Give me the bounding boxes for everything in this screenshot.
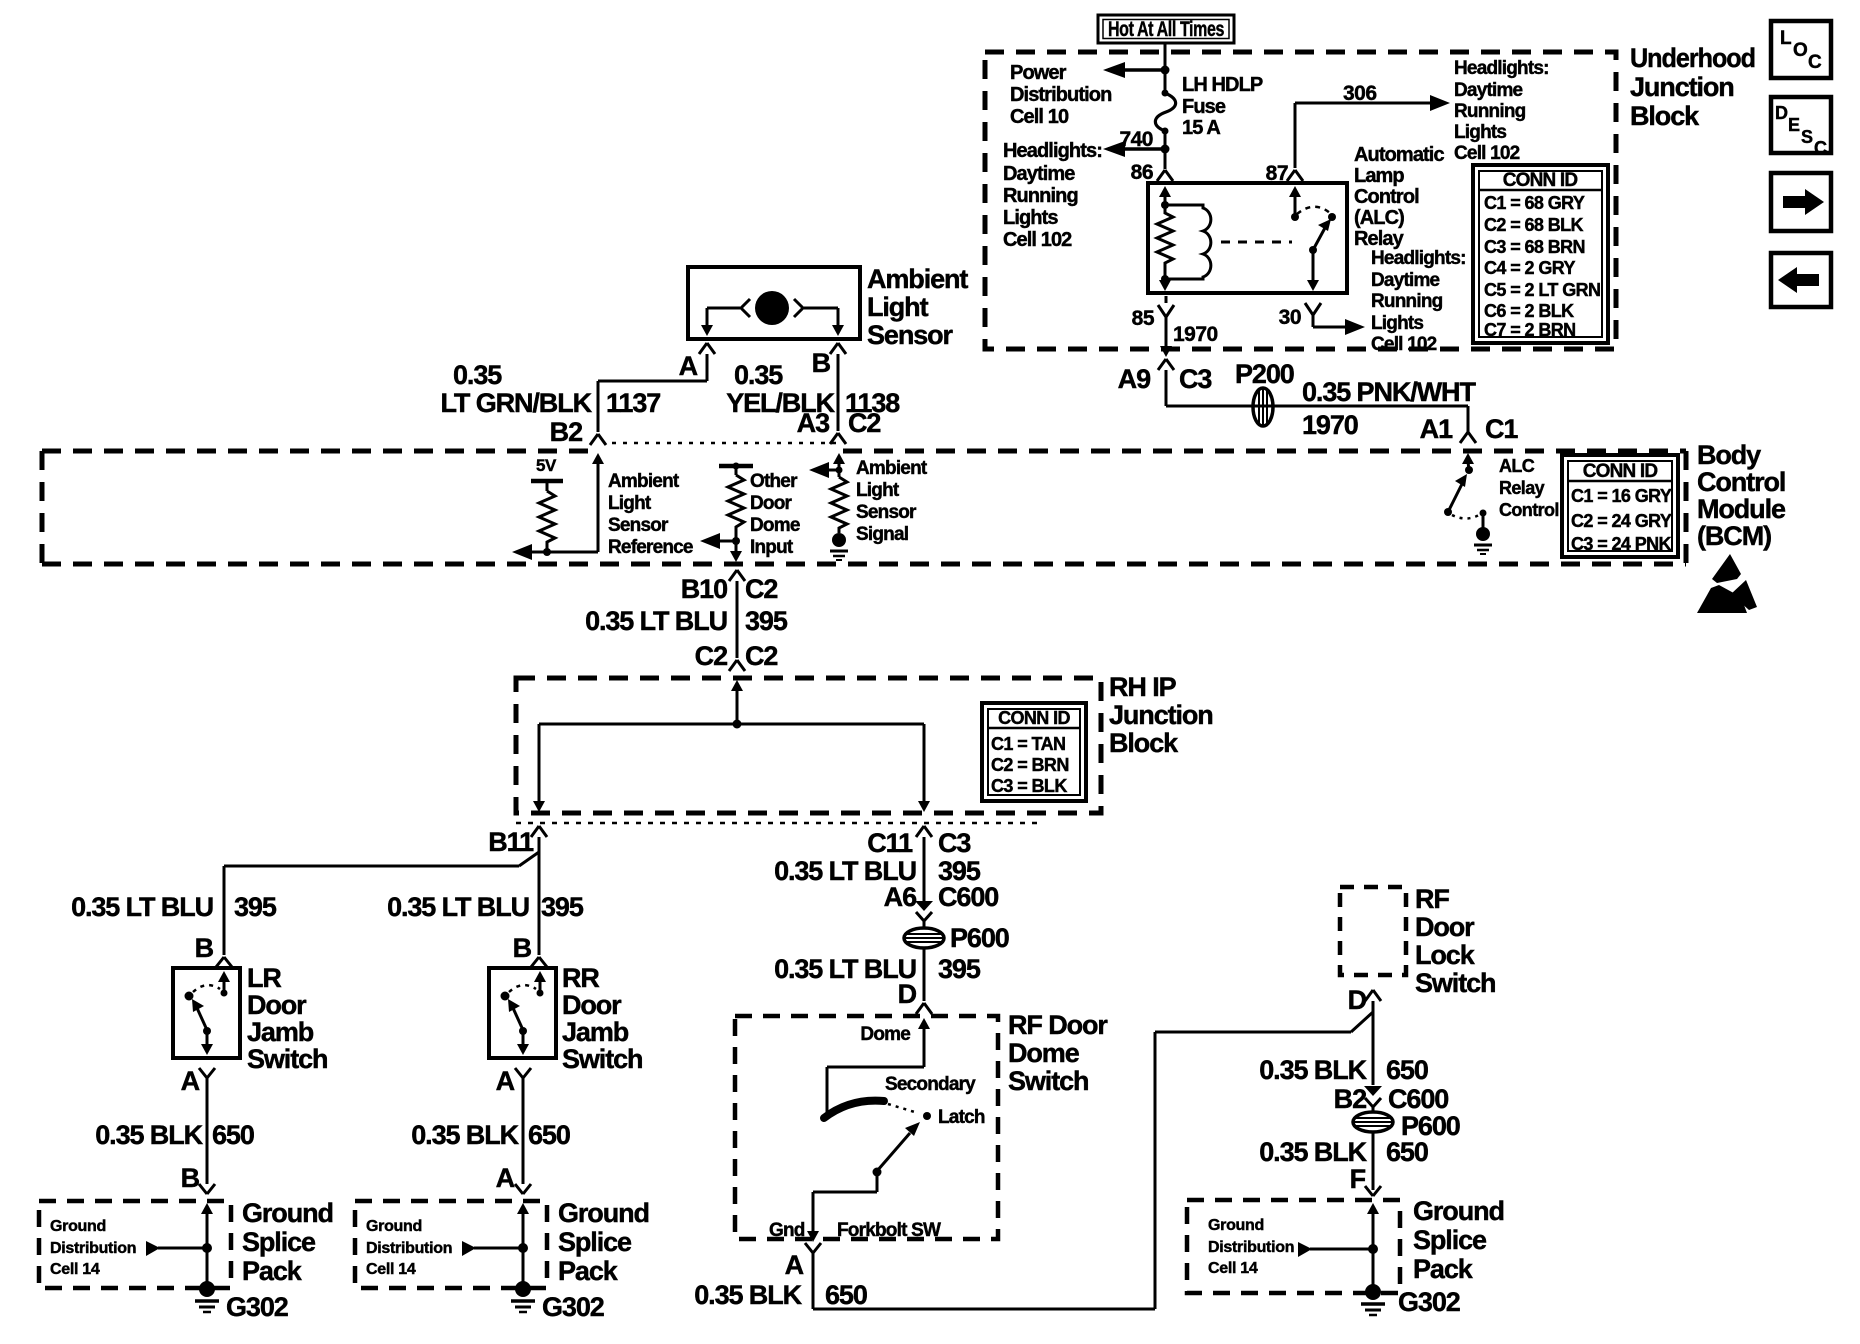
svg-text:Sensor: Sensor	[608, 515, 669, 536]
svg-text:Lights: Lights	[1003, 207, 1058, 229]
pin 30	[1279, 303, 1321, 329]
svg-text:0.35 LT BLU: 0.35 LT BLU	[387, 892, 529, 922]
svg-text:0.35 LT BLU: 0.35 LT BLU	[71, 892, 213, 922]
svg-text:Cell 102: Cell 102	[1003, 229, 1072, 251]
svg-text:Underhood: Underhood	[1630, 43, 1755, 73]
label Underhood Junction Block	[1630, 43, 1755, 131]
label 0.35 YEL/BLK	[726, 360, 835, 418]
svg-text:O: O	[1793, 40, 1807, 61]
svg-text:Junction: Junction	[1109, 700, 1213, 730]
svg-text:D: D	[1348, 985, 1367, 1015]
pin A of RR switch	[496, 1066, 531, 1096]
ground splice pack 1 dashed box	[39, 1201, 231, 1288]
svg-text:B11: B11	[488, 827, 534, 857]
svg-text:A: A	[496, 1163, 515, 1193]
svg-text:Door: Door	[562, 990, 622, 1020]
svg-text:Ground: Ground	[242, 1198, 333, 1228]
wire 306 from terminal 87	[1295, 95, 1450, 168]
pin B of RR door jamb switch	[513, 933, 547, 967]
label Ground Splice Pack (1)	[242, 1198, 333, 1286]
svg-text:650: 650	[212, 1120, 254, 1150]
pin B11	[488, 826, 547, 857]
svg-text:C2: C2	[745, 641, 777, 671]
label Ground Splice Pack (3)	[1413, 1196, 1504, 1284]
wire 395 LT BLU from C11 to C600	[923, 837, 926, 901]
svg-text:Control: Control	[1354, 186, 1419, 208]
svg-text:B: B	[513, 933, 532, 963]
svg-text:1970: 1970	[1302, 410, 1358, 440]
ALC relay box	[1148, 183, 1347, 293]
svg-text:C3 = 68 BRN: C3 = 68 BRN	[1484, 237, 1585, 257]
svg-text:A: A	[679, 351, 698, 381]
wire 650 BLK from P600 to splice pack 3	[1372, 1132, 1375, 1190]
svg-text:Cell 14: Cell 14	[1208, 1260, 1258, 1277]
svg-text:C5 = 2 LT GRN: C5 = 2 LT GRN	[1484, 280, 1600, 300]
label RF Door Dome Switch	[1008, 1010, 1108, 1096]
svg-text:Daytime: Daytime	[1371, 270, 1440, 291]
wire to Power Distribution Cell 10	[1103, 62, 1165, 78]
svg-text:Light: Light	[608, 493, 652, 514]
svg-text:Light: Light	[867, 292, 929, 322]
label Headlights: Daytime Running Lights Cell 102 (left)	[1003, 140, 1102, 251]
svg-text:Splice: Splice	[558, 1227, 632, 1257]
label Ground Distribution Cell 14 (1)	[50, 1218, 136, 1278]
svg-text:85: 85	[1132, 307, 1155, 330]
wire forkbolt to Gnd pin	[807, 1172, 877, 1242]
label Ambient Light Sensor Signal	[856, 458, 928, 545]
label Ground Distribution Cell 14 (3)	[1208, 1217, 1294, 1277]
svg-text:G302: G302	[1398, 1287, 1460, 1317]
svg-text:A: A	[181, 1066, 200, 1096]
pin D of RF door dome switch	[898, 979, 932, 1014]
svg-text:L: L	[1780, 28, 1792, 49]
relay coil bottom node and arrow	[1159, 275, 1171, 291]
pin A at ground splice pack 2	[496, 1163, 531, 1194]
svg-text:Door: Door	[1415, 912, 1475, 942]
svg-text:Block: Block	[1109, 728, 1179, 758]
svg-text:Distribution: Distribution	[1010, 84, 1111, 106]
relay coil	[1165, 205, 1211, 279]
ambient light sensor signal arrow from A3	[809, 453, 845, 478]
dotted link secondary to latch	[888, 1104, 918, 1113]
label RH IP Junction Block	[1109, 672, 1213, 758]
svg-text:D: D	[898, 979, 917, 1009]
label Automatic Lamp Control (ALC) Relay	[1354, 144, 1444, 250]
svg-text:Ambient: Ambient	[856, 458, 928, 479]
svg-text:C3: C3	[938, 828, 971, 858]
svg-text:C1 = TAN: C1 = TAN	[991, 734, 1065, 754]
ground splice pack 3 dashed box	[1187, 1200, 1400, 1293]
svg-text:1970: 1970	[1173, 323, 1218, 346]
LR switch internals	[185, 971, 231, 1055]
relay switch to terminal 30	[1307, 250, 1319, 291]
svg-text:C3: C3	[1179, 364, 1212, 394]
connector B2 C600	[1334, 1084, 1449, 1114]
pin 86	[1131, 161, 1173, 184]
grommet P200	[1253, 388, 1273, 426]
svg-text:Automatic: Automatic	[1354, 144, 1444, 166]
svg-text:Cell 10: Cell 10	[1010, 106, 1069, 128]
label RR Door Jamb Switch	[562, 963, 642, 1074]
pin B10 C2 below BCM	[681, 570, 778, 604]
label Body Control Module (BCM)	[1697, 440, 1786, 551]
Ambient Light Sensor box	[688, 267, 860, 339]
svg-text:Pack: Pack	[1413, 1254, 1474, 1284]
svg-text:Distribution: Distribution	[1208, 1239, 1294, 1256]
svg-text:15 A: 15 A	[1182, 117, 1220, 139]
latch contact dot	[923, 1112, 931, 1120]
svg-text:Hot At All Times: Hot At All Times	[1108, 18, 1224, 41]
svg-text:0.35 LT BLU: 0.35 LT BLU	[774, 954, 916, 984]
svg-text:306: 306	[1343, 82, 1377, 105]
svg-text:LR: LR	[247, 963, 281, 993]
svg-text:C11: C11	[867, 828, 913, 858]
svg-text:Fuse: Fuse	[1182, 96, 1226, 118]
pin 85	[1132, 305, 1174, 330]
fuse LH HDLP 15 A	[1155, 90, 1175, 135]
svg-text:Jamb: Jamb	[562, 1017, 629, 1047]
svg-text:Headlights:: Headlights:	[1003, 140, 1102, 162]
grommet P600 (dome switch feed)	[904, 928, 944, 948]
sensor internal wire to pin A	[701, 308, 740, 336]
svg-text:Running: Running	[1003, 185, 1078, 207]
RH IP CONN ID table	[982, 703, 1086, 801]
svg-text:Cell 102: Cell 102	[1454, 143, 1520, 164]
svg-text:Junction: Junction	[1630, 72, 1734, 102]
wire 1970 PNK/WHT from A9 to BCM A1	[1166, 370, 1468, 430]
svg-text:CONN ID: CONN ID	[998, 708, 1070, 728]
svg-text:RF Door: RF Door	[1008, 1010, 1108, 1040]
RR switch internals	[501, 971, 547, 1055]
svg-text:C3 = 24 PNK: C3 = 24 PNK	[1571, 534, 1672, 554]
svg-text:Headlights:: Headlights:	[1454, 58, 1549, 79]
svg-text:Forkbolt SW: Forkbolt SW	[837, 1220, 941, 1241]
svg-text:1137: 1137	[606, 388, 660, 418]
svg-text:Relay: Relay	[1499, 478, 1545, 498]
svg-text:Ground: Ground	[1413, 1196, 1504, 1226]
label 0.35 LT GRN/BLK	[441, 360, 593, 418]
svg-text:D: D	[1775, 103, 1788, 123]
label Ambient Light Sensor Reference	[608, 471, 693, 558]
relay switch fixed contact	[1328, 213, 1336, 221]
label ALC Relay Control	[1499, 456, 1559, 520]
svg-text:G302: G302	[542, 1292, 604, 1322]
relay coil-side arrow from 86	[1159, 186, 1171, 209]
svg-text:Jamb: Jamb	[247, 1017, 314, 1047]
Underhood Junction Block dashed box	[985, 52, 1616, 349]
wire from 30 to Lights Cell 102	[1313, 315, 1365, 335]
svg-text:A1: A1	[1420, 414, 1453, 444]
wire 1970 from 85 out of junction block	[1160, 296, 1172, 357]
pin C11 C3	[867, 826, 971, 858]
svg-text:CONN ID: CONN ID	[1583, 461, 1658, 482]
svg-text:0.35 BLK: 0.35 BLK	[411, 1120, 519, 1150]
relay actuation dashed link	[1221, 241, 1292, 244]
5V supply bar	[531, 456, 563, 491]
svg-text:Reference: Reference	[608, 537, 693, 558]
svg-text:C4 = 2 GRY: C4 = 2 GRY	[1484, 258, 1575, 278]
svg-text:0.35 BLK: 0.35 BLK	[1259, 1055, 1367, 1085]
svg-text:Switch: Switch	[1008, 1066, 1088, 1096]
svg-text:Cell 14: Cell 14	[366, 1261, 416, 1278]
svg-text:395: 395	[938, 954, 981, 984]
svg-text:650: 650	[1386, 1055, 1428, 1085]
svg-text:Switch: Switch	[1415, 968, 1495, 998]
svg-text:Switch: Switch	[562, 1044, 642, 1074]
connector C2 dotted interface line on BCM	[612, 442, 836, 445]
svg-text:Control: Control	[1499, 500, 1559, 520]
splice pack 3 internals	[1298, 1203, 1379, 1287]
svg-text:Secondary: Secondary	[885, 1074, 976, 1095]
ground splice pack 2 dashed box	[355, 1201, 547, 1288]
wire 395 LT BLU from BCM to RH IP junction block	[736, 581, 739, 658]
wire 650 BLK from dome switch to RF door lock switch	[813, 1012, 1373, 1309]
label Power Distribution Cell 10	[1010, 62, 1111, 128]
svg-text:30: 30	[1279, 306, 1301, 329]
svg-text:Input: Input	[750, 537, 794, 558]
svg-text:C2: C2	[848, 408, 880, 438]
svg-text:Lights: Lights	[1371, 313, 1423, 334]
svg-text:0.35 BLK: 0.35 BLK	[694, 1280, 802, 1310]
ALC switch dotted link to ground contact	[1452, 515, 1479, 519]
svg-text:Distribution: Distribution	[366, 1240, 452, 1257]
wire 1137 LT GRN/BLK from A to BCM B2	[598, 354, 707, 432]
svg-text:Lock: Lock	[1415, 940, 1476, 970]
resistor other door dome input	[728, 475, 744, 541]
splice pack 1 internals	[146, 1203, 213, 1284]
relay switch arrow from 87	[1289, 186, 1301, 221]
pin B of LR door jamb switch	[195, 933, 232, 967]
resistor ambient light sensor signal	[831, 477, 847, 533]
svg-text:C: C	[1808, 52, 1822, 73]
ALC switch ground contact ball	[1474, 510, 1492, 555]
svg-text:C1 = 68 GRY: C1 = 68 GRY	[1484, 193, 1585, 213]
svg-text:(ALC): (ALC)	[1354, 207, 1404, 229]
svg-text:RR: RR	[562, 963, 599, 993]
svg-text:Power: Power	[1010, 62, 1067, 84]
svg-text:Running: Running	[1371, 291, 1443, 312]
pin A9 C3 below junction block	[1118, 359, 1213, 394]
label LH HDLP Fuse 15 A	[1182, 74, 1263, 139]
wire 1138 YEL/BLK from B to BCM A3	[837, 354, 840, 431]
label Other Door Dome Input	[750, 471, 800, 558]
label Headlights: Daytime Running Lights Cell 102 (lower)	[1371, 248, 1466, 355]
pin F at ground splice pack 3	[1350, 1164, 1381, 1196]
svg-text:Control: Control	[1697, 467, 1785, 497]
secondary switch blade (thick)	[824, 1101, 884, 1118]
svg-text:395: 395	[234, 892, 277, 922]
ambient light sensor element	[741, 291, 803, 325]
svg-text:87: 87	[1266, 162, 1288, 185]
svg-text:Switch: Switch	[247, 1044, 327, 1074]
svg-text:B: B	[812, 348, 831, 378]
pin B2 fork on BCM	[590, 434, 606, 445]
pin C2 C2 at RH IP junction block	[695, 641, 778, 671]
svg-text:Signal: Signal	[856, 524, 908, 545]
svg-text:650: 650	[1386, 1137, 1428, 1167]
svg-text:C3 = BLK: C3 = BLK	[991, 776, 1067, 796]
svg-text:Dome: Dome	[1008, 1038, 1080, 1068]
connector A6 C600	[884, 882, 999, 929]
svg-text:0.35 PNK/WHT: 0.35 PNK/WHT	[1302, 377, 1476, 407]
svg-text:C2 = BRN: C2 = BRN	[991, 755, 1069, 775]
svg-text:Running: Running	[1454, 101, 1526, 122]
svg-text:ALC: ALC	[1499, 456, 1535, 476]
node reference resistor to B2 line	[543, 548, 551, 556]
svg-text:Light: Light	[856, 480, 900, 501]
svg-text:A: A	[496, 1066, 515, 1096]
label Headlights: Daytime Running Lights Cell 102 (top right)	[1454, 58, 1549, 164]
wire from Hot At All Times to fuse	[1164, 43, 1167, 93]
svg-text:P600: P600	[950, 923, 1009, 953]
ambient light sensor reference arrow into B2	[512, 453, 604, 560]
svg-text:C600: C600	[938, 882, 998, 912]
svg-text:C7 = 2 BRN: C7 = 2 BRN	[1484, 320, 1576, 340]
svg-text:Door: Door	[750, 493, 793, 514]
svg-text:Relay: Relay	[1354, 228, 1405, 250]
svg-text:650: 650	[825, 1280, 867, 1310]
svg-text:Lamp: Lamp	[1354, 165, 1404, 187]
svg-text:Body: Body	[1697, 440, 1761, 470]
relay switch blade	[1309, 219, 1331, 254]
svg-text:B10: B10	[681, 574, 727, 604]
svg-text:Gnd: Gnd	[769, 1220, 805, 1241]
wire fuse to relay terminal 86	[1164, 131, 1167, 169]
svg-text:86: 86	[1131, 161, 1153, 184]
svg-text:Dome: Dome	[750, 515, 800, 536]
svg-text:E: E	[1788, 115, 1800, 135]
Body Control Module dashed box	[42, 451, 1686, 564]
svg-text:Block: Block	[1630, 101, 1700, 131]
splice bus inside RH IP junction block	[533, 680, 930, 812]
label Ground Distribution Cell 14 (2)	[366, 1218, 452, 1278]
label RF Door Lock Switch	[1415, 884, 1495, 998]
svg-text:B: B	[195, 933, 214, 963]
connector dotted interface line below RH IP	[516, 822, 1039, 825]
arrow other door input to left	[700, 533, 736, 549]
svg-text:B2: B2	[550, 417, 582, 447]
svg-text:0.35 BLK: 0.35 BLK	[95, 1120, 203, 1150]
svg-text:C2 = 24 GRY: C2 = 24 GRY	[1571, 511, 1672, 531]
svg-text:Daytime: Daytime	[1003, 163, 1075, 185]
svg-text:A6: A6	[884, 882, 917, 912]
svg-text:Cell 102: Cell 102	[1371, 334, 1437, 355]
svg-text:Daytime: Daytime	[1454, 80, 1523, 101]
ground G302 (2)	[511, 1281, 604, 1322]
label Ambient Light Sensor	[867, 264, 968, 350]
svg-text:Ambient: Ambient	[608, 471, 680, 492]
pin A1 C1	[1420, 414, 1519, 444]
svg-text:B: B	[181, 1163, 200, 1193]
svg-text:LH HDLP: LH HDLP	[1182, 74, 1263, 96]
svg-text:C: C	[1814, 138, 1827, 158]
pin D of RF door lock switch	[1348, 985, 1381, 1015]
grommet P600 (lock switch ground)	[1353, 1112, 1393, 1132]
pin A of LR switch	[181, 1066, 215, 1096]
RH IP Junction Block dashed box	[516, 678, 1101, 813]
svg-text:Dome: Dome	[860, 1024, 910, 1045]
svg-text:(BCM): (BCM)	[1697, 521, 1771, 551]
other door dome input pull-up bar	[719, 463, 753, 476]
svg-text:B2: B2	[1334, 1084, 1366, 1114]
ESD sensitivity symbol	[1697, 554, 1757, 613]
svg-text:0.35 LT BLU: 0.35 LT BLU	[585, 606, 727, 636]
svg-text:Latch: Latch	[938, 1107, 985, 1128]
svg-text:650: 650	[528, 1120, 570, 1150]
svg-text:Pack: Pack	[558, 1256, 619, 1286]
svg-text:740: 740	[1119, 128, 1153, 151]
ALC relay control switch in BCM	[1444, 453, 1474, 516]
wire 395 LT BLU from P600 to dome switch	[923, 948, 926, 1001]
pin B at ground splice pack 1	[181, 1163, 215, 1194]
svg-text:Ground: Ground	[558, 1198, 649, 1228]
LOC button	[1771, 21, 1831, 78]
svg-text:Ambient: Ambient	[867, 264, 968, 294]
RF Door Dome Switch dashed box	[735, 1016, 998, 1239]
ground G302 (1)	[195, 1281, 288, 1322]
svg-text:Ground: Ground	[366, 1218, 422, 1235]
splice pack 2 internals	[462, 1203, 529, 1284]
svg-text:Headlights:: Headlights:	[1371, 248, 1466, 269]
svg-text:Splice: Splice	[242, 1227, 316, 1257]
next-page arrow button	[1771, 173, 1831, 231]
svg-text:C6 = 2 BLK: C6 = 2 BLK	[1484, 301, 1574, 321]
pin B of sensor	[812, 343, 846, 378]
svg-text:CONN ID: CONN ID	[1503, 170, 1578, 191]
relay switch dashed travel arc	[1297, 207, 1330, 214]
svg-text:Cell 14: Cell 14	[50, 1261, 100, 1278]
relay resistor	[1157, 205, 1173, 279]
svg-text:Pack: Pack	[242, 1256, 303, 1286]
svg-text:Module: Module	[1697, 494, 1786, 524]
svg-text:395: 395	[541, 892, 584, 922]
Underhood Junction Block CONN ID table	[1473, 165, 1608, 343]
svg-text:C600: C600	[1388, 1084, 1448, 1114]
BCM CONN ID table	[1562, 455, 1678, 557]
svg-text:A3: A3	[797, 408, 830, 438]
svg-text:F: F	[1350, 1164, 1366, 1194]
dome contact arrow	[827, 1018, 930, 1113]
svg-text:C2: C2	[745, 574, 777, 604]
signal termination ball and ground	[830, 533, 848, 560]
DESC button	[1771, 97, 1831, 158]
wire 740 to Headlights	[1103, 141, 1165, 157]
svg-text:G302: G302	[226, 1292, 288, 1322]
pin C1 fork on BCM	[1467, 430, 1470, 432]
sensor internal wire to pin B	[804, 308, 844, 336]
pin A of dome switch	[785, 1243, 821, 1280]
svg-text:C2 = 68 BLK: C2 = 68 BLK	[1484, 215, 1584, 235]
pin 87	[1266, 162, 1303, 185]
LR door jamb switch box	[173, 968, 240, 1058]
wire from B11 splitting to LR and RR door jamb switches	[224, 837, 539, 955]
svg-text:RF: RF	[1415, 884, 1449, 914]
node other door dome input	[732, 537, 740, 545]
label Ground Splice Pack (2)	[558, 1198, 649, 1286]
svg-text:Ground: Ground	[50, 1218, 106, 1235]
Hot At All Times label box	[1098, 15, 1234, 43]
svg-text:Lights: Lights	[1454, 122, 1506, 143]
ground G302 (3)	[1361, 1284, 1460, 1317]
svg-text:A9: A9	[1118, 364, 1151, 394]
svg-text:Other: Other	[750, 471, 798, 492]
svg-text:Distribution: Distribution	[50, 1240, 136, 1257]
label LR Door Jamb Switch	[247, 963, 327, 1074]
wire 650 BLK from LR switch	[206, 1078, 209, 1184]
svg-text:LT GRN/BLK: LT GRN/BLK	[441, 388, 593, 418]
pin A3 fork on BCM	[830, 433, 846, 444]
previous-page arrow button	[1771, 253, 1831, 307]
